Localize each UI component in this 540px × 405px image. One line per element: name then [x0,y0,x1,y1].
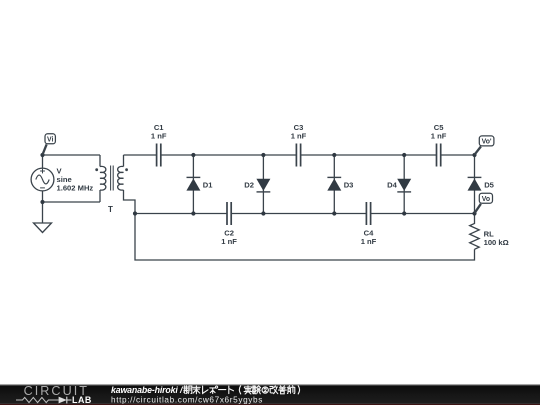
svg-text:kawanabe-hiroki /: kawanabe-hiroki / [111,385,184,395]
svg-text:1 nF: 1 nF [431,131,447,140]
svg-text:1 nF: 1 nF [221,237,237,246]
svg-text:D5: D5 [484,181,494,190]
svg-text:1 nF: 1 nF [291,131,307,140]
svg-text:T: T [108,205,113,214]
svg-text:Vi: Vi [47,136,53,143]
svg-text:D1: D1 [203,181,213,190]
svg-text:V: V [57,166,63,175]
svg-text:1.602 MHz: 1.602 MHz [57,184,94,193]
svg-text:Vo': Vo' [482,139,492,146]
svg-text:LAB: LAB [72,395,92,405]
svg-text:Vo: Vo [482,196,490,203]
svg-text:http://circuitlab.com/cw67x6r5: http://circuitlab.com/cw67x6r5ygybs [111,395,263,404]
svg-text:sine: sine [57,175,72,184]
svg-text:1 nF: 1 nF [151,131,167,140]
svg-text:D3: D3 [344,181,354,190]
svg-text:D2: D2 [244,181,254,190]
svg-text:100 kΩ: 100 kΩ [484,238,509,247]
svg-text:1 nF: 1 nF [361,237,377,246]
svg-text:D4: D4 [387,181,397,190]
